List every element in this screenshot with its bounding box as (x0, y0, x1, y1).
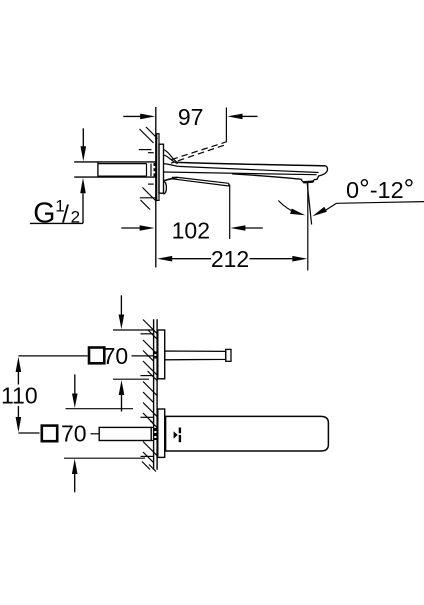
wall hatching (bottom view) (141, 320, 157, 472)
extension line upper plate bottom (113, 378, 149, 380)
extension line upper plate top (113, 329, 153, 331)
spout lower crease (164, 172, 317, 175)
svg-text:/: / (62, 201, 69, 229)
svg-text:0°-12°: 0°-12° (346, 174, 414, 204)
extension line lower plate bottom (64, 457, 145, 459)
square symbol upper 70 (89, 348, 104, 364)
dashed tilted spout (up position) (172, 142, 228, 160)
upper escutcheon plate (bottom view) (158, 330, 165, 379)
arrow down (upper plate top) (119, 295, 125, 329)
pipe hidden dashes in wall (153, 163, 155, 177)
extension line 212 / stream vertical (307, 183, 309, 271)
dashed tilted spout lower line (171, 145, 225, 163)
escutcheon plate (top view) (159, 144, 164, 193)
svg-text:97: 97 (178, 104, 204, 130)
extension line lower plate top (66, 408, 134, 410)
extension line 97 (225, 108, 227, 142)
trumpet foot bulge (164, 181, 167, 194)
svg-text:110: 110 (1, 382, 38, 408)
supply pipe G1/2 (top view) (74, 161, 157, 163)
trumpet flare curves (164, 150, 178, 163)
svg-text:102: 102 (172, 218, 210, 244)
tilted stream line (307, 183, 311, 225)
svg-text:2: 2 (71, 208, 80, 227)
wall lines (bottom view) (153, 319, 155, 469)
temperature mark (174, 428, 181, 443)
centerline upper (18, 355, 87, 357)
lower centerline (18, 432, 39, 434)
svg-text:212: 212 (211, 246, 249, 272)
dimension 97 arrows (123, 114, 257, 120)
square symbol lower 70 (42, 426, 57, 442)
mounting flange (top view) (157, 134, 159, 201)
spout top edge (178, 162, 326, 166)
angle arc (278, 201, 296, 213)
leader dash to pipe (91, 433, 100, 435)
lever handle (166, 416, 329, 451)
wall hatching (top view) (139, 127, 158, 210)
spout bar (bottom view) (165, 351, 226, 360)
underside wedge (172, 177, 229, 183)
trumpet lower swoop into wedge (164, 177, 178, 180)
pipe hidden dashes in wall (bottom view) (154, 428, 157, 440)
svg-text:G: G (33, 198, 55, 230)
dimension 102 arrows (121, 225, 262, 231)
dimension 212 (157, 256, 307, 262)
arrow up (lower plate bottom) (72, 459, 78, 493)
supply pipe (bottom view) (99, 427, 151, 440)
wall line (top view) (155, 107, 157, 268)
spout tip (314, 166, 328, 180)
mousseur (302, 179, 314, 182)
svg-text:70: 70 (103, 343, 129, 369)
arrow up (upper plate bottom) (119, 380, 125, 412)
spout bottom edge (232, 174, 302, 180)
angle leader (337, 202, 424, 204)
dimension 110 (16, 357, 22, 433)
svg-text:70: 70 (61, 420, 87, 446)
pipe diameter arrows (30, 128, 86, 223)
lower escutcheon plate (bottom view) (158, 409, 165, 457)
spout tip cap (bottom view) (226, 349, 231, 361)
spout upper crease (178, 166, 318, 172)
extension line 102 (229, 185, 231, 240)
arrow down (lower plate top) (72, 374, 78, 408)
spout bar hidden dashes in wall (154, 352, 157, 360)
